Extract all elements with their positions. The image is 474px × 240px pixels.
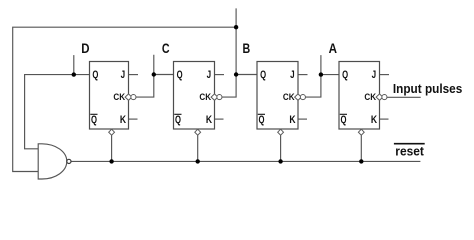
svg-text:J: J xyxy=(290,69,295,81)
svg-text:J: J xyxy=(207,69,212,81)
svg-text:CK: CK xyxy=(199,92,211,102)
svg-text:B: B xyxy=(243,40,251,56)
svg-text:A: A xyxy=(329,40,337,56)
svg-text:CK: CK xyxy=(283,92,295,102)
svg-text:Q: Q xyxy=(92,69,98,81)
svg-text:Q: Q xyxy=(177,69,183,81)
svg-text:Q: Q xyxy=(259,114,265,126)
svg-text:K: K xyxy=(206,114,212,126)
svg-text:CK: CK xyxy=(364,92,376,102)
svg-text:Q: Q xyxy=(175,114,181,126)
svg-text:K: K xyxy=(289,114,295,126)
svg-text:J: J xyxy=(372,69,377,81)
svg-text:J: J xyxy=(121,69,126,81)
svg-text:reset: reset xyxy=(395,143,424,158)
svg-text:CK: CK xyxy=(113,92,125,102)
svg-text:K: K xyxy=(371,114,377,126)
svg-text:Q: Q xyxy=(341,114,347,126)
svg-text:C: C xyxy=(162,40,170,56)
svg-text:Input pulses: Input pulses xyxy=(393,81,462,96)
svg-text:Q: Q xyxy=(260,69,266,81)
svg-text:Q: Q xyxy=(342,69,348,81)
svg-text:K: K xyxy=(120,114,126,126)
svg-text:D: D xyxy=(81,40,89,56)
svg-text:Q: Q xyxy=(91,114,97,126)
